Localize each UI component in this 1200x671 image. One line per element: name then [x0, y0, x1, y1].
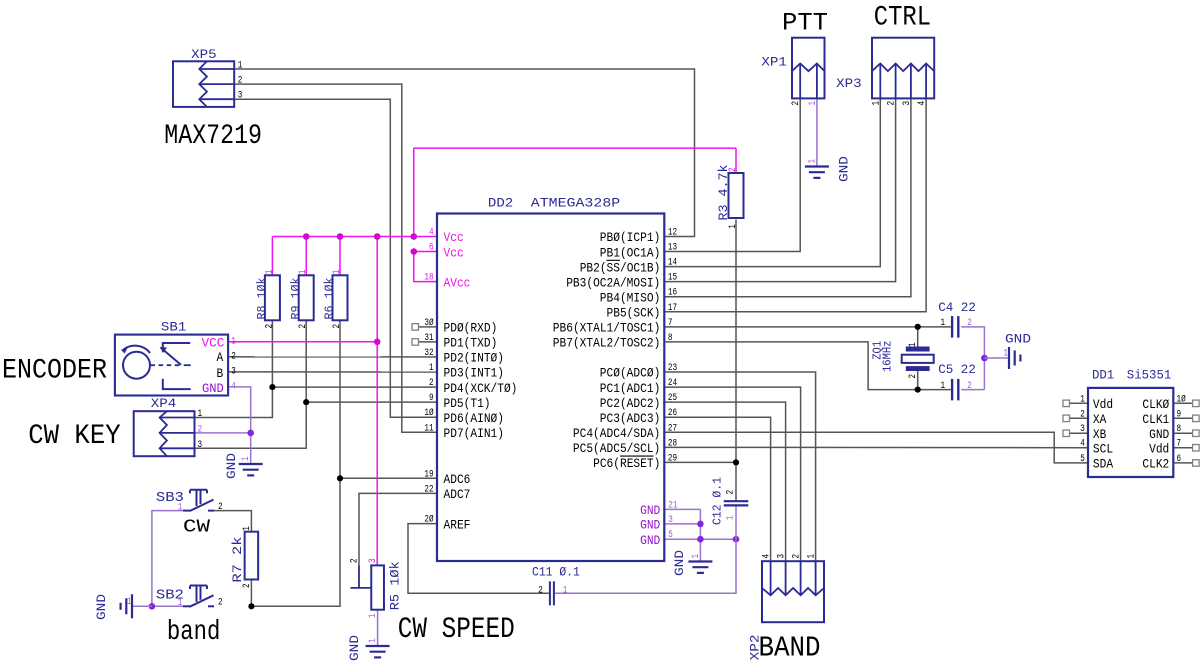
svg-text:R7 2k: R7 2k — [231, 537, 245, 583]
svg-text:3: 3 — [1080, 424, 1085, 435]
svg-text:2: 2 — [967, 381, 972, 392]
svg-text:PD6(AINØ): PD6(AINØ) — [444, 412, 505, 426]
svg-text:4: 4 — [231, 381, 236, 392]
svg-text:XP5: XP5 — [191, 47, 217, 62]
svg-text:PD4(XCK/TØ): PD4(XCK/TØ) — [444, 382, 518, 396]
svg-text:4: 4 — [1080, 439, 1085, 450]
svg-text:21: 21 — [668, 500, 677, 511]
svg-text:VCC: VCC — [202, 337, 225, 351]
svg-text:14: 14 — [668, 258, 677, 269]
svg-text:PC4(ADC4/SDA): PC4(ADC4/SDA) — [573, 427, 660, 441]
svg-text:CW: CW — [183, 518, 210, 538]
svg-text:2: 2 — [298, 324, 309, 329]
svg-text:22: 22 — [424, 484, 433, 495]
svg-text:CLK2: CLK2 — [1142, 458, 1169, 472]
svg-text:AREF: AREF — [444, 518, 471, 532]
svg-text:XA: XA — [1093, 413, 1107, 427]
svg-text:2: 2 — [538, 586, 543, 597]
svg-text:1: 1 — [871, 101, 882, 106]
svg-text:Vdd: Vdd — [1149, 442, 1169, 456]
svg-text:Si5351: Si5351 — [1127, 368, 1172, 383]
svg-text:PD7(AIN1): PD7(AIN1) — [444, 427, 505, 441]
svg-text:2: 2 — [967, 318, 972, 329]
svg-text:1: 1 — [264, 270, 275, 275]
svg-text:AVcc: AVcc — [444, 276, 471, 290]
svg-text:3Ø: 3Ø — [424, 317, 433, 329]
svg-text:8: 8 — [668, 333, 673, 344]
svg-text:1: 1 — [241, 456, 252, 461]
svg-text:band: band — [167, 617, 220, 648]
svg-text:PB5(SCK): PB5(SCK) — [607, 307, 661, 321]
svg-text:ADC7: ADC7 — [444, 488, 471, 502]
svg-text:CW SPEED: CW SPEED — [398, 613, 515, 647]
svg-text:1: 1 — [298, 270, 309, 275]
svg-text:ENCODER: ENCODER — [2, 356, 107, 387]
svg-text:PD3(INT1): PD3(INT1) — [444, 367, 505, 381]
svg-text:GND: GND — [1149, 428, 1169, 442]
svg-text:GND: GND — [224, 453, 239, 479]
svg-text:GND: GND — [347, 635, 362, 661]
svg-text:1: 1 — [1080, 394, 1085, 405]
svg-text:18: 18 — [424, 273, 433, 284]
svg-text:C11 Ø.1: C11 Ø.1 — [532, 565, 580, 580]
svg-text:26: 26 — [668, 408, 677, 419]
svg-text:B: B — [217, 367, 224, 381]
svg-text:Vdd: Vdd — [1093, 398, 1113, 412]
svg-text:1: 1 — [728, 224, 739, 229]
svg-text:6: 6 — [1177, 454, 1182, 465]
svg-text:Vcc: Vcc — [444, 231, 464, 245]
svg-text:32: 32 — [424, 348, 433, 359]
svg-text:3: 3 — [777, 554, 788, 559]
svg-text:CLKØ: CLKØ — [1142, 398, 1169, 412]
svg-text:1Ø: 1Ø — [1177, 393, 1186, 405]
svg-text:2: 2 — [218, 502, 223, 513]
svg-text:2: 2 — [218, 598, 223, 609]
svg-text:PD1(TXD): PD1(TXD) — [444, 337, 498, 351]
svg-text:1: 1 — [808, 101, 819, 106]
svg-text:C4 22: C4 22 — [938, 300, 976, 315]
svg-text:8: 8 — [1177, 424, 1182, 435]
svg-text:R6 1Øk: R6 1Øk — [323, 278, 337, 320]
svg-text:1: 1 — [368, 638, 379, 643]
svg-text:DD2: DD2 — [488, 196, 513, 211]
svg-text:1: 1 — [178, 503, 183, 514]
svg-text:1: 1 — [242, 526, 253, 531]
svg-text:29: 29 — [668, 453, 677, 464]
svg-text:4: 4 — [762, 554, 773, 559]
svg-text:SB1: SB1 — [161, 320, 186, 335]
svg-text:1: 1 — [1003, 348, 1008, 359]
svg-text:SDA: SDA — [1093, 458, 1114, 472]
svg-text:3: 3 — [231, 366, 236, 377]
svg-text:15: 15 — [668, 273, 677, 284]
svg-text:ADC6: ADC6 — [444, 473, 471, 487]
svg-text:3: 3 — [368, 558, 379, 563]
svg-text:2: 2 — [242, 583, 253, 588]
svg-text:2: 2 — [728, 167, 739, 172]
svg-text:1: 1 — [238, 61, 243, 72]
svg-text:1Ø: 1Ø — [424, 407, 433, 419]
svg-text:1: 1 — [198, 409, 203, 420]
svg-text:C5 22: C5 22 — [938, 362, 976, 377]
svg-text:PB2(SS/OC1B): PB2(SS/OC1B) — [580, 261, 661, 275]
svg-text:GND: GND — [640, 534, 660, 548]
svg-text:7: 7 — [668, 318, 673, 329]
svg-text:PD2(INTØ): PD2(INTØ) — [444, 352, 505, 366]
svg-text:PD5(T1): PD5(T1) — [444, 397, 491, 411]
svg-text:Vcc: Vcc — [444, 246, 464, 260]
svg-text:1: 1 — [429, 363, 434, 374]
svg-text:GND: GND — [94, 594, 109, 620]
svg-text:2: 2 — [332, 324, 343, 329]
svg-text:PB3(OC2A/MOSI): PB3(OC2A/MOSI) — [566, 276, 660, 290]
svg-text:23: 23 — [668, 363, 677, 374]
svg-text:6: 6 — [429, 243, 434, 254]
svg-text:GND: GND — [836, 156, 851, 182]
svg-text:4: 4 — [429, 228, 434, 239]
svg-text:PCØ(ADCØ): PCØ(ADCØ) — [600, 367, 661, 381]
svg-text:DD1: DD1 — [1092, 368, 1114, 383]
svg-text:28: 28 — [668, 438, 677, 449]
svg-text:17: 17 — [668, 303, 677, 314]
svg-text:C12 Ø.1: C12 Ø.1 — [710, 477, 724, 525]
svg-text:ATMEGA328P: ATMEGA328P — [531, 196, 620, 211]
svg-text:CTRL: CTRL — [874, 3, 931, 34]
svg-text:PC1(ADC1): PC1(ADC1) — [600, 382, 661, 396]
svg-text:1: 1 — [231, 336, 236, 347]
svg-text:2: 2 — [792, 554, 803, 559]
svg-text:16: 16 — [668, 288, 677, 299]
svg-text:2Ø: 2Ø — [424, 514, 433, 526]
svg-text:3: 3 — [902, 101, 913, 106]
svg-text:2: 2 — [350, 558, 361, 563]
svg-text:CLK1: CLK1 — [1142, 413, 1169, 427]
svg-text:1: 1 — [368, 613, 379, 618]
svg-text:7: 7 — [1177, 439, 1182, 450]
svg-text:1: 1 — [941, 381, 946, 392]
svg-text:PC6(RESET): PC6(RESET) — [593, 457, 660, 471]
svg-text:4: 4 — [917, 101, 928, 106]
svg-text:9: 9 — [1177, 409, 1182, 420]
svg-text:2: 2 — [231, 351, 236, 362]
svg-text:24: 24 — [668, 378, 677, 389]
svg-text:1: 1 — [908, 342, 919, 347]
svg-text:19: 19 — [424, 469, 433, 480]
svg-text:2: 2 — [1080, 409, 1085, 420]
svg-text:PB4(MISO): PB4(MISO) — [600, 291, 661, 305]
svg-text:25: 25 — [668, 393, 677, 404]
svg-text:1: 1 — [178, 598, 183, 609]
svg-text:27: 27 — [668, 423, 677, 434]
svg-text:R9 1Øk: R9 1Øk — [289, 278, 303, 320]
svg-text:PB7(XTAL2/TOSC2): PB7(XTAL2/TOSC2) — [553, 337, 661, 351]
svg-text:1: 1 — [332, 270, 343, 275]
svg-text:3: 3 — [198, 440, 203, 451]
svg-text:5: 5 — [1080, 454, 1085, 465]
svg-text:1: 1 — [807, 554, 818, 559]
svg-text:XP3: XP3 — [836, 76, 862, 91]
svg-text:1: 1 — [807, 159, 818, 164]
svg-text:PTT: PTT — [782, 9, 828, 38]
svg-text:3: 3 — [668, 515, 673, 526]
svg-text:GND: GND — [672, 550, 687, 576]
svg-text:PC3(ADC3): PC3(ADC3) — [600, 412, 661, 426]
svg-text:MAX7219: MAX7219 — [164, 121, 262, 152]
svg-text:PC5(ADC5/SCL): PC5(ADC5/SCL) — [573, 442, 660, 456]
svg-text:GND: GND — [1005, 331, 1031, 346]
svg-text:13: 13 — [668, 243, 677, 254]
svg-text:1: 1 — [127, 597, 132, 608]
svg-text:R8 1Øk: R8 1Øk — [255, 278, 269, 320]
svg-text:XP4: XP4 — [151, 396, 177, 411]
svg-text:PC2(ADC2): PC2(ADC2) — [600, 397, 661, 411]
svg-text:XB: XB — [1093, 428, 1107, 442]
svg-text:2: 2 — [198, 424, 203, 435]
svg-text:SCL: SCL — [1093, 442, 1113, 456]
svg-text:31: 31 — [424, 333, 433, 344]
svg-text:PB6(XTAL1/TOSC1): PB6(XTAL1/TOSC1) — [553, 322, 661, 336]
svg-text:9: 9 — [429, 393, 434, 404]
svg-text:1: 1 — [691, 554, 702, 559]
svg-text:PBØ(ICP1): PBØ(ICP1) — [600, 231, 661, 245]
svg-text:CW KEY: CW KEY — [28, 421, 121, 452]
svg-text:2: 2 — [429, 378, 434, 389]
svg-text:1: 1 — [563, 586, 568, 597]
svg-text:2: 2 — [726, 490, 737, 495]
svg-text:11: 11 — [424, 423, 433, 434]
svg-text:1: 1 — [941, 318, 946, 329]
svg-text:PB1(OC1A): PB1(OC1A) — [600, 246, 661, 260]
svg-text:2: 2 — [238, 76, 243, 87]
svg-text:A: A — [217, 351, 224, 365]
svg-text:GND: GND — [202, 382, 224, 396]
svg-text:R5 1Øk: R5 1Øk — [389, 561, 403, 610]
svg-text:5: 5 — [668, 530, 673, 541]
svg-text:GND: GND — [640, 504, 660, 518]
svg-text:GND: GND — [640, 519, 660, 533]
svg-text:2: 2 — [791, 101, 802, 106]
svg-text:1: 1 — [726, 515, 737, 520]
svg-text:XP1: XP1 — [761, 55, 787, 70]
svg-text:BAND: BAND — [759, 631, 821, 664]
svg-text:2: 2 — [887, 101, 898, 106]
svg-text:PDØ(RXD): PDØ(RXD) — [444, 322, 498, 336]
svg-text:2: 2 — [908, 374, 919, 379]
svg-text:12: 12 — [668, 228, 677, 239]
svg-text:2: 2 — [264, 324, 275, 329]
svg-text:3: 3 — [238, 91, 243, 102]
svg-text:16MHz: 16MHz — [881, 341, 894, 373]
